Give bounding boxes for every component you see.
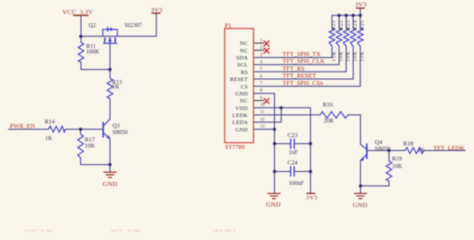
svg-text:R25: R25: [361, 20, 366, 30]
svg-text:R16: R16: [323, 103, 333, 109]
svg-text:P1: P1: [225, 23, 232, 30]
svg-text:20R: 20R: [324, 119, 334, 125]
svg-text:Q2: Q2: [89, 23, 96, 29]
svg-text:C24: C24: [288, 160, 298, 166]
svg-text:3V3: 3V3: [151, 7, 163, 14]
svg-text:VCC_3.3V: VCC_3.3V: [24, 229, 53, 232]
svg-text:1K: 1K: [112, 85, 120, 91]
svg-text:LEDA: LEDA: [232, 120, 248, 126]
svg-text:1K: 1K: [45, 136, 53, 142]
svg-text:1: 1: [260, 37, 262, 42]
svg-text:TFT_RESET: TFT_RESET: [283, 73, 317, 80]
svg-text:2: 2: [260, 45, 262, 50]
svg-text:100nF: 100nF: [289, 181, 305, 187]
svg-text:TFT_SPI0_CLK: TFT_SPI0_CLK: [283, 58, 326, 65]
svg-text:SI2307: SI2307: [125, 23, 142, 29]
svg-text:R19: R19: [392, 157, 402, 163]
svg-text:3V3 3V3: 3V3 3V3: [212, 229, 236, 232]
svg-text:11: 11: [260, 109, 264, 114]
svg-text:R21: R21: [332, 20, 337, 30]
svg-text:3V3: 3V3: [306, 194, 318, 201]
svg-text:GND: GND: [235, 127, 248, 133]
svg-text:10K: 10K: [354, 51, 359, 62]
svg-text:LEDK: LEDK: [232, 113, 248, 119]
svg-text:SDA: SDA: [236, 56, 248, 62]
svg-text:TFT_LEDK: TFT_LEDK: [433, 145, 465, 152]
svg-text:10K: 10K: [392, 164, 403, 170]
svg-text:RS: RS: [241, 70, 248, 76]
svg-text:1uF: 1uF: [289, 150, 299, 156]
svg-text:10K: 10K: [85, 143, 96, 149]
svg-text:VCC_3.3V: VCC_3.3V: [62, 9, 93, 16]
svg-text:S8050: S8050: [375, 146, 390, 152]
svg-text:GND: GND: [353, 202, 368, 209]
svg-text:10K: 10K: [340, 51, 345, 62]
svg-text:NC: NC: [240, 41, 248, 47]
svg-text:SCL: SCL: [237, 63, 248, 69]
svg-text:TFT_RS: TFT_RS: [283, 65, 306, 72]
svg-text:GND: GND: [103, 181, 118, 188]
svg-text:R18: R18: [403, 141, 413, 147]
svg-text:R22: R22: [339, 20, 344, 30]
svg-text:C23: C23: [288, 133, 298, 139]
svg-text:R24: R24: [353, 20, 358, 30]
svg-text:R23: R23: [346, 20, 351, 30]
svg-text:PWR_EN: PWR_EN: [10, 123, 36, 130]
svg-text:CS: CS: [241, 84, 248, 90]
svg-text:VDD: VDD: [235, 106, 248, 112]
svg-text:3V3: 3V3: [355, 2, 367, 9]
svg-text:R14: R14: [45, 120, 55, 126]
svg-text:TFT_SPI0_CSn: TFT_SPI0_CSn: [283, 80, 324, 87]
svg-text:100K: 100K: [86, 50, 100, 56]
svg-text:R17: R17: [85, 137, 95, 143]
svg-text:10K: 10K: [332, 51, 337, 62]
svg-text:GND: GND: [266, 202, 281, 209]
svg-text:Q3: Q3: [112, 124, 119, 130]
svg-text:Q4: Q4: [375, 140, 382, 146]
svg-text:NC: NC: [240, 48, 248, 54]
svg-text:TFT_SPI0_TX: TFT_SPI0_TX: [283, 51, 322, 58]
svg-text:RESET: RESET: [230, 77, 248, 83]
svg-text:1K: 1K: [418, 148, 426, 154]
svg-text:10K: 10K: [347, 51, 352, 62]
svg-text:VCC_3.3V: VCC_3.3V: [111, 229, 140, 232]
svg-text:GND: GND: [235, 92, 248, 98]
svg-text:S8050: S8050: [112, 130, 127, 136]
svg-text:10K: 10K: [361, 51, 366, 62]
svg-text:12: 12: [260, 116, 264, 121]
svg-text:NC: NC: [240, 99, 248, 105]
svg-text:ST7789: ST7789: [225, 144, 245, 151]
